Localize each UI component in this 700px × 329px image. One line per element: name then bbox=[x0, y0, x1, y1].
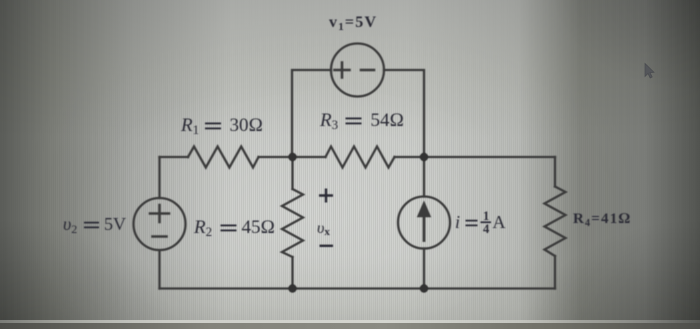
wire current source to bottom node bbox=[423, 249, 425, 289]
svg-text:54Ω: 54Ω bbox=[371, 110, 405, 131]
wire bottom rail bbox=[160, 287, 556, 289]
wire right column lower bbox=[554, 256, 556, 289]
svg-text:5V: 5V bbox=[104, 214, 126, 234]
svg-text:R2: R2 bbox=[193, 217, 212, 239]
wire node A down to R2 bbox=[291, 157, 293, 189]
wire top-left to R1 bbox=[160, 156, 189, 158]
mouse cursor bbox=[645, 64, 654, 79]
wire R1 to node A bbox=[259, 156, 293, 158]
resistor R4 bbox=[545, 187, 566, 257]
svg-text:v1=5V: v1=5V bbox=[329, 14, 376, 33]
svg-text:υx: υx bbox=[317, 220, 330, 238]
wire V1 to right column bbox=[384, 70, 424, 157]
voltage source V1 bbox=[331, 44, 384, 97]
resistor R3 bbox=[326, 147, 395, 168]
svg-text:R4=41Ω: R4=41Ω bbox=[573, 211, 630, 229]
wire node B to top-right corner bbox=[424, 156, 555, 158]
svg-text:i: i bbox=[455, 212, 460, 232]
value label R1 = 30 ohm bbox=[180, 115, 263, 137]
svg-text:υ2: υ2 bbox=[63, 214, 77, 236]
svg-text:30Ω: 30Ω bbox=[230, 115, 264, 136]
current source I bbox=[398, 197, 450, 249]
label vx plus bbox=[319, 189, 333, 203]
svg-text:A: A bbox=[493, 212, 506, 232]
value label i = 1/4 A bbox=[455, 209, 506, 236]
svg-text:R3: R3 bbox=[319, 110, 338, 132]
wire left column upper bbox=[158, 157, 160, 198]
svg-text:R1: R1 bbox=[180, 115, 199, 137]
value label R2 = 45 ohm bbox=[193, 217, 275, 239]
wire node A to R3 bbox=[293, 156, 326, 158]
junction node B bbox=[420, 153, 428, 161]
value label R3 = 54 ohm bbox=[319, 110, 404, 132]
svg-text:4: 4 bbox=[483, 222, 490, 236]
resistor R1 bbox=[188, 147, 259, 168]
wire right column upper bbox=[554, 157, 556, 187]
label vx minus bbox=[320, 245, 334, 247]
junction node A bbox=[288, 153, 296, 161]
svg-text:45Ω: 45Ω bbox=[242, 217, 276, 238]
resistor R2 bbox=[282, 189, 303, 257]
wire R2 to bottom node bbox=[291, 257, 293, 289]
junction node D (bottom right) bbox=[420, 284, 428, 292]
svg-text:1: 1 bbox=[483, 209, 489, 223]
junction node C (bottom left) bbox=[288, 284, 296, 292]
voltage source V2 bbox=[134, 198, 186, 250]
wire node A up to V1 branch bbox=[292, 70, 331, 157]
wire node B down to current source bbox=[423, 157, 425, 197]
value label v2 = 5V bbox=[63, 214, 126, 236]
wire left column lower bbox=[158, 251, 160, 289]
wire R3 to node B bbox=[395, 156, 425, 158]
